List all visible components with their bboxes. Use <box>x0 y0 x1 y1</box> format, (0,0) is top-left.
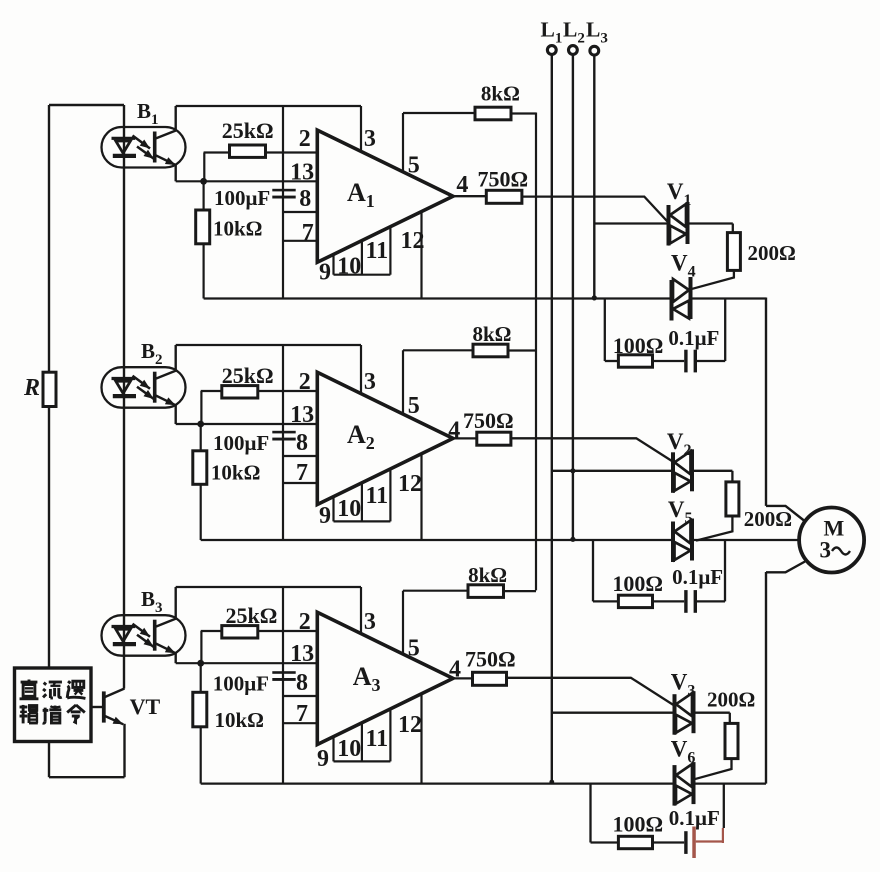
svg-text:5: 5 <box>408 152 420 178</box>
svg-text:8kΩ: 8kΩ <box>481 81 520 105</box>
svg-text:100μF: 100μF <box>213 431 269 455</box>
svg-text:10kΩ: 10kΩ <box>213 217 263 241</box>
svg-text:0.1μF: 0.1μF <box>672 565 723 589</box>
svg-text:25kΩ: 25kΩ <box>222 118 274 143</box>
svg-text:9: 9 <box>319 503 331 529</box>
svg-text:11: 11 <box>366 483 389 509</box>
svg-text:200Ω: 200Ω <box>748 241 796 265</box>
svg-text:8: 8 <box>296 430 308 456</box>
svg-text:R: R <box>23 375 40 401</box>
svg-text:13: 13 <box>290 402 314 428</box>
svg-text:4: 4 <box>448 418 460 444</box>
svg-text:25kΩ: 25kΩ <box>226 603 278 628</box>
svg-text:10: 10 <box>337 254 361 280</box>
svg-text:100Ω: 100Ω <box>613 333 664 358</box>
svg-text:12: 12 <box>398 471 422 497</box>
svg-text:3: 3 <box>820 538 832 563</box>
svg-text:8kΩ: 8kΩ <box>473 322 512 346</box>
svg-text:7: 7 <box>296 460 308 486</box>
svg-text:4: 4 <box>449 657 461 683</box>
svg-text:4: 4 <box>456 172 468 198</box>
svg-text:750Ω: 750Ω <box>465 646 516 671</box>
svg-text:750Ω: 750Ω <box>478 167 529 192</box>
svg-text:10: 10 <box>337 496 361 522</box>
svg-text:100μF: 100μF <box>214 186 270 210</box>
svg-text:7: 7 <box>296 701 308 727</box>
svg-text:200Ω: 200Ω <box>744 507 792 531</box>
svg-text:8kΩ: 8kΩ <box>468 563 507 587</box>
svg-text:100μF: 100μF <box>213 671 269 695</box>
svg-text:10: 10 <box>337 736 361 762</box>
svg-text:25kΩ: 25kΩ <box>222 363 274 388</box>
svg-text:3: 3 <box>364 126 376 152</box>
svg-text:10kΩ: 10kΩ <box>215 708 265 732</box>
svg-text:9: 9 <box>317 746 329 772</box>
svg-text:9: 9 <box>319 260 331 286</box>
svg-text:3: 3 <box>364 369 376 395</box>
svg-text:11: 11 <box>366 726 389 752</box>
svg-text:VT: VT <box>130 694 161 719</box>
svg-text:12: 12 <box>401 228 425 254</box>
svg-text:2: 2 <box>299 369 311 395</box>
svg-text:11: 11 <box>366 238 389 264</box>
svg-text:12: 12 <box>398 712 422 738</box>
svg-text:750Ω: 750Ω <box>463 408 514 433</box>
svg-text:10kΩ: 10kΩ <box>211 461 261 485</box>
svg-text:2: 2 <box>299 609 311 635</box>
svg-text:100Ω: 100Ω <box>612 571 663 596</box>
svg-text:7: 7 <box>302 220 314 246</box>
svg-text:100Ω: 100Ω <box>613 811 664 836</box>
svg-text:2: 2 <box>299 126 311 152</box>
svg-text:13: 13 <box>290 641 314 667</box>
svg-text:3: 3 <box>364 609 376 635</box>
svg-text:0.1μF: 0.1μF <box>668 326 719 350</box>
svg-text:0.1μF: 0.1μF <box>669 806 720 830</box>
svg-text:5: 5 <box>408 393 420 419</box>
svg-text:8: 8 <box>299 186 311 212</box>
svg-text:200Ω: 200Ω <box>707 687 755 711</box>
svg-text:13: 13 <box>290 160 314 186</box>
svg-text:5: 5 <box>408 636 420 662</box>
svg-text:8: 8 <box>296 670 308 696</box>
